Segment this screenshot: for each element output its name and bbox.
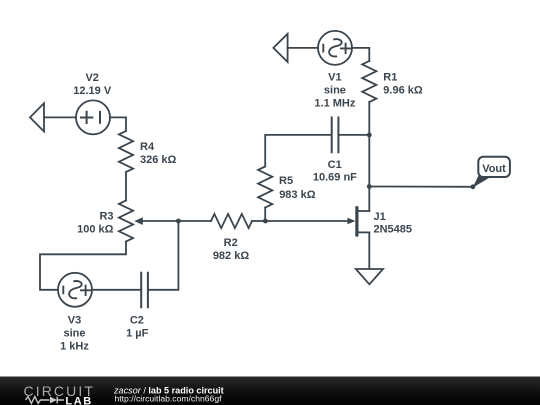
junction node R2/R5/gate <box>263 219 268 224</box>
wire V3 to C2 <box>92 289 141 291</box>
wire R5 top to C1 left <box>265 135 331 167</box>
svg-text:1.1 MHz: 1.1 MHz <box>314 97 355 109</box>
svg-text:12.19 V: 12.19 V <box>73 85 112 97</box>
svg-text:9.96 kΩ: 9.96 kΩ <box>383 85 423 97</box>
wire flag to V1 <box>288 47 318 49</box>
wire R1 bottom through C1 node to drain <box>368 102 370 211</box>
svg-text:J1: J1 <box>374 211 386 223</box>
svg-text:10.69 nF: 10.69 nF <box>313 171 357 183</box>
svg-text:R3: R3 <box>99 210 113 222</box>
svg-text:sine: sine <box>324 85 346 97</box>
svg-text:C2: C2 <box>130 315 144 327</box>
junction node C1/drain <box>367 133 372 138</box>
node flag V1 (triangle pointer) <box>273 34 287 62</box>
svg-text:100 kΩ: 100 kΩ <box>77 223 114 235</box>
svg-text:http://circuitlab.com/chn66gf: http://circuitlab.com/chn66gf <box>115 393 223 403</box>
svg-text:2N5485: 2N5485 <box>374 224 413 236</box>
wire C2 to wiper junction <box>148 221 178 290</box>
wire junction to R2 <box>178 220 211 222</box>
ground <box>356 269 383 284</box>
resistor R2 <box>211 214 252 228</box>
Vout flag <box>473 173 493 188</box>
wire C1 right to drain line <box>339 134 370 136</box>
resistor R1 <box>362 61 376 102</box>
wire flag to V2 <box>44 116 76 118</box>
svg-text:982 kΩ: 982 kΩ <box>213 250 250 262</box>
svg-text:R4: R4 <box>140 141 155 153</box>
svg-text:R1: R1 <box>383 72 397 84</box>
wire R3 bottom to V3 <box>40 242 126 290</box>
svg-text:326 kΩ: 326 kΩ <box>140 154 177 166</box>
wire R5 bottom to junction <box>264 208 266 222</box>
resistor R4 <box>119 131 133 172</box>
junction node R3/R2/C2 <box>176 219 181 224</box>
svg-text:R5: R5 <box>279 175 293 187</box>
potentiometer R3 <box>119 201 133 242</box>
capacitor C1 <box>332 118 339 153</box>
svg-text:1 µF: 1 µF <box>126 328 149 340</box>
svg-text:983 kΩ: 983 kΩ <box>279 189 316 201</box>
wire R2 to gate junction <box>252 220 266 222</box>
svg-text:V3: V3 <box>68 315 81 327</box>
voltage source V2 <box>76 100 110 134</box>
logo resistor-diode glyph <box>26 397 65 404</box>
svg-text:R2: R2 <box>224 237 238 249</box>
R3 wiper arrow <box>142 220 178 222</box>
wire source to ground <box>368 232 370 269</box>
wire drain node to Vout <box>369 186 473 188</box>
wire V2 to R4 <box>110 117 126 131</box>
resistor R5 <box>258 167 272 208</box>
wire R4 to R3 <box>125 172 127 201</box>
wire V1 to R1 <box>352 48 369 61</box>
node flag V2 (triangle pointer) <box>30 103 44 131</box>
capacitor C2 <box>141 273 148 308</box>
svg-text:LAB: LAB <box>65 396 92 405</box>
voltage source V3 (sine) <box>58 273 92 307</box>
wire gate junction to J1 gate <box>266 220 349 222</box>
JFET J1 <box>357 210 369 212</box>
footer bar <box>0 377 540 405</box>
svg-text:sine: sine <box>63 328 85 340</box>
svg-text:V2: V2 <box>85 72 98 84</box>
svg-text:V1: V1 <box>328 72 341 84</box>
svg-text:1 kHz: 1 kHz <box>60 340 89 352</box>
voltage source V1 (sine) <box>318 31 352 65</box>
node dot at Vout flag <box>471 184 476 189</box>
svg-text:C1: C1 <box>328 159 342 171</box>
junction node drain/Vout <box>367 184 372 189</box>
svg-text:Vout: Vout <box>482 163 506 175</box>
